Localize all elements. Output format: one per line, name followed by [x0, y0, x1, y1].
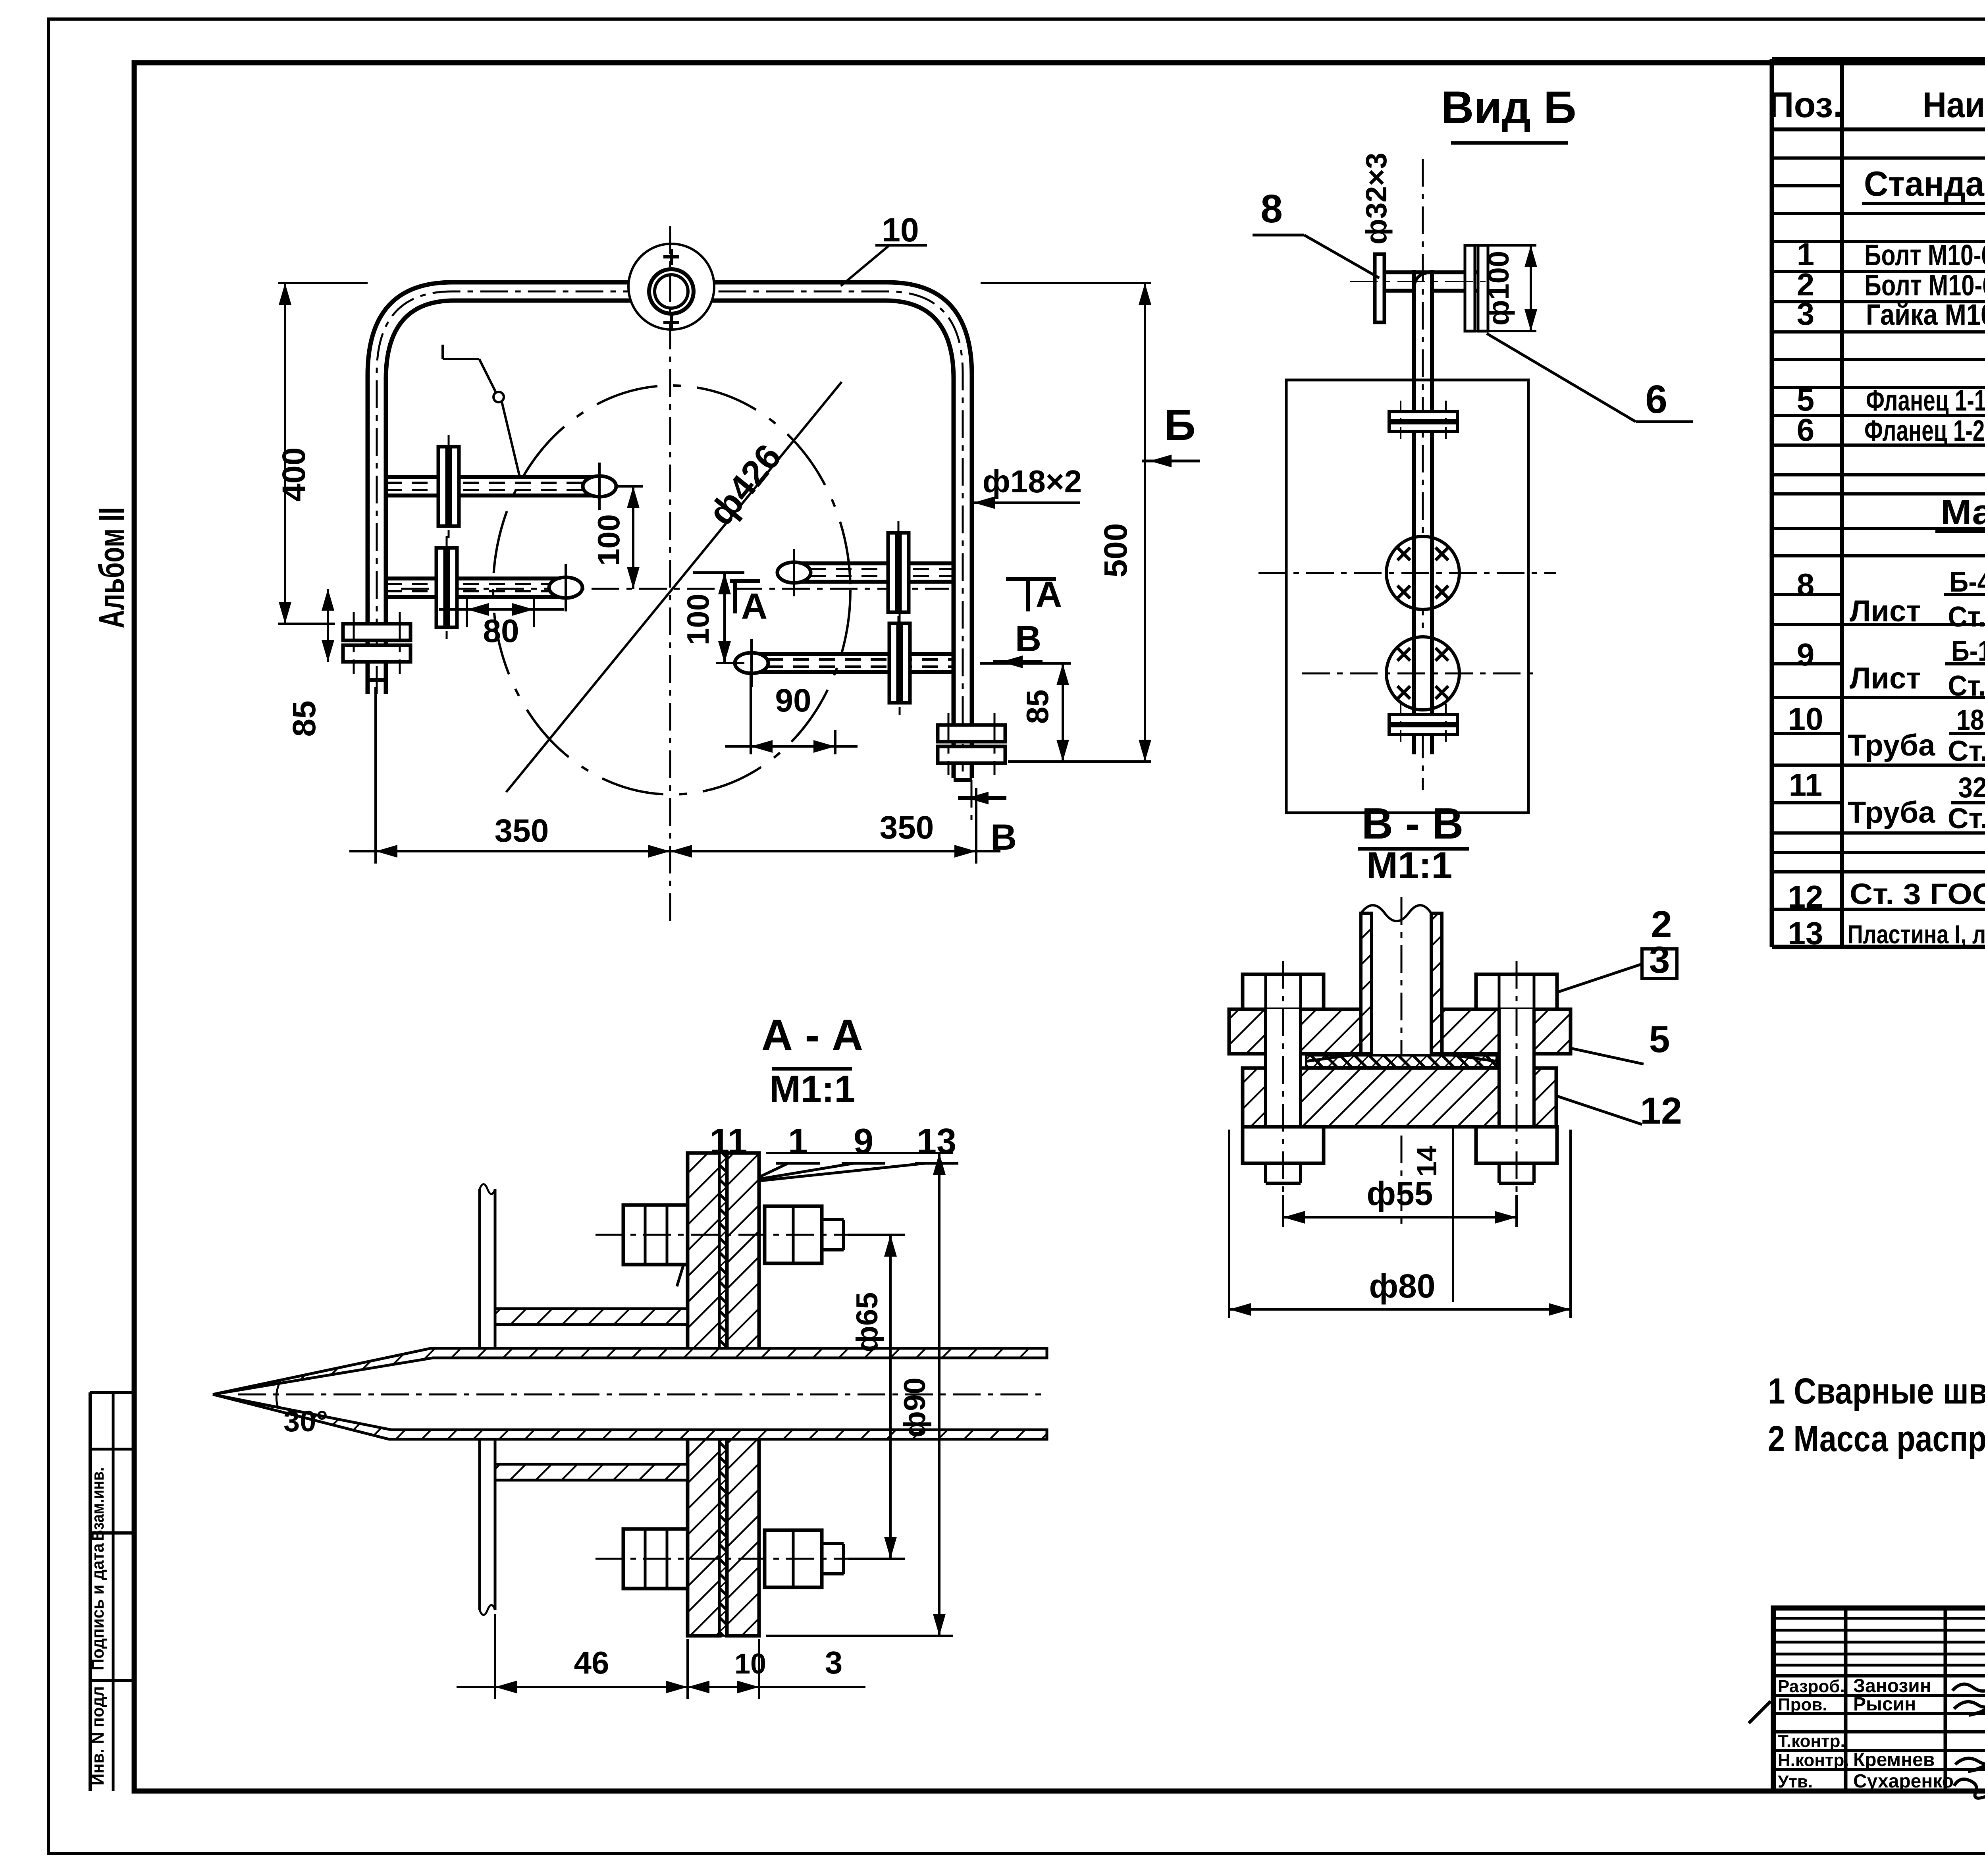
- svg-text:Н.контр.: Н.контр.: [1778, 1751, 1849, 1770]
- svg-text:ф100: ф100: [1482, 251, 1515, 326]
- svg-text:12: 12: [1788, 879, 1823, 914]
- svg-text:Фланец 1-15-6 ст 25 ГОСТ 12820: Фланец 1-15-6 ст 25 ГОСТ 12820-80: [1866, 384, 1985, 417]
- svg-text:3: 3: [1797, 296, 1815, 332]
- svg-text:Рысин: Рысин: [1853, 1694, 1916, 1715]
- svg-text:Кремнев: Кремнев: [1853, 1749, 1935, 1770]
- svg-text:13: 13: [917, 1122, 956, 1161]
- svg-text:Альбом II: Альбом II: [92, 507, 132, 629]
- svg-text:Утв.: Утв.: [1778, 1772, 1813, 1791]
- svg-text:Ст.3 ГОСТ 14637-79: Ст.3 ГОСТ 14637-79: [1948, 601, 1985, 633]
- svg-text:400: 400: [276, 447, 312, 502]
- svg-text:6: 6: [1645, 377, 1667, 422]
- svg-text:9: 9: [854, 1122, 873, 1161]
- svg-text:10: 10: [882, 211, 919, 249]
- svg-text:ф65: ф65: [850, 1292, 884, 1352]
- svg-text:Наименование: Наименование: [1923, 85, 1985, 125]
- svg-text:Поз.: Поз.: [1768, 85, 1843, 125]
- svg-text:13: 13: [1788, 916, 1823, 951]
- svg-text:Материалы: Материалы: [1941, 492, 1985, 532]
- svg-text:В - В: В - В: [1362, 799, 1464, 848]
- svg-text:ф80: ф80: [1369, 1267, 1436, 1305]
- svg-text:Пластина I, лист ТМКЩ-С-3 ГОСТ: Пластина I, лист ТМКЩ-С-3 ГОСТ 7338-77: [1848, 920, 1985, 949]
- svg-text:Ст. 3 ГОСТ 380-71: Ст. 3 ГОСТ 380-71: [1850, 877, 1985, 910]
- svg-text:Труба: Труба: [1848, 796, 1935, 829]
- svg-text:9: 9: [1797, 637, 1815, 672]
- svg-text:Ст.3 ГОСТ 10705-80: Ст.3 ГОСТ 10705-80: [1948, 803, 1985, 835]
- svg-text:10: 10: [734, 1648, 766, 1680]
- svg-text:Б-4 ГОСТ 19903-74: Б-4 ГОСТ 19903-74: [1949, 566, 1985, 598]
- svg-text:В: В: [991, 817, 1017, 858]
- svg-text:18×2 ГОСТ 10704-76: 18×2 ГОСТ 10704-76: [1956, 704, 1985, 736]
- svg-text:В: В: [1015, 619, 1041, 659]
- svg-text:Гайка М10-6Н.5 ГОСТ 5915-70: Гайка М10-6Н.5 ГОСТ 5915-70: [1866, 298, 1985, 331]
- svg-text:Вид Б: Вид Б: [1441, 82, 1576, 133]
- svg-text:Болт М10-6g ×35.58 01 ГОСТ 779: Болт М10-6g ×35.58 01 ГОСТ 7798-70: [1864, 239, 1985, 272]
- svg-text:Пров.: Пров.: [1778, 1695, 1827, 1714]
- svg-text:Стандартные изделия: Стандартные изделия: [1864, 164, 1985, 203]
- svg-text:100: 100: [591, 514, 626, 566]
- svg-text:А - А: А - А: [761, 1011, 863, 1060]
- svg-text:Ст.3 ГОСТ 14637-79: Ст.3 ГОСТ 14637-79: [1948, 670, 1985, 702]
- svg-text:350: 350: [495, 813, 549, 849]
- svg-text:46: 46: [574, 1645, 609, 1680]
- svg-text:Т.контр.: Т.контр.: [1778, 1731, 1845, 1751]
- svg-text:1: 1: [788, 1122, 808, 1161]
- svg-text:14: 14: [1411, 1146, 1442, 1177]
- svg-text:12: 12: [1640, 1090, 1682, 1132]
- svg-text:1 Сварные швы по ГОСТ 16037-8: 1 Сварные швы по ГОСТ 16037-80: [1768, 1371, 1985, 1411]
- svg-text:Б: Б: [1164, 401, 1195, 449]
- svg-text:ф18×2: ф18×2: [983, 464, 1082, 499]
- svg-text:11: 11: [1789, 767, 1823, 802]
- svg-text:100: 100: [680, 594, 715, 645]
- svg-text:Труба: Труба: [1848, 729, 1935, 762]
- svg-text:85: 85: [1020, 690, 1055, 724]
- svg-text:Инв. N подл: Инв. N подл: [88, 1686, 108, 1785]
- svg-text:5: 5: [1649, 1018, 1670, 1060]
- svg-text:3: 3: [1649, 939, 1670, 981]
- svg-text:Разроб.: Разроб.: [1778, 1677, 1845, 1696]
- svg-text:Ст.3 ГОСТ 10705-80: Ст.3 ГОСТ 10705-80: [1948, 735, 1985, 767]
- svg-text:10: 10: [1788, 701, 1823, 737]
- svg-text:30°: 30°: [283, 1405, 328, 1438]
- svg-text:ф90: ф90: [898, 1377, 932, 1437]
- svg-text:ф32×3: ф32×3: [1360, 152, 1393, 244]
- svg-text:Фланец 1-25-6 ст 25 ГОСТ 12820: Фланец 1-25-6 ст 25 ГОСТ 12820-80: [1864, 414, 1985, 447]
- svg-text:А: А: [741, 586, 767, 627]
- svg-text:90: 90: [775, 683, 811, 719]
- svg-text:8: 8: [1797, 567, 1815, 602]
- svg-text:2 Масса распределителя 7.8кг: 2 Масса распределителя 7.8кг: [1768, 1419, 1985, 1459]
- svg-text:Болт М10-6g ×45.58.01 ГОСТ 779: Болт М10-6g ×45.58.01 ГОСТ 7798-70: [1864, 269, 1985, 302]
- svg-text:3: 3: [825, 1645, 843, 1680]
- svg-text:32×3 ГОСТ 10704-76: 32×3 ГОСТ 10704-76: [1958, 772, 1985, 804]
- svg-text:Взам.инв.: Взам.инв.: [88, 1467, 108, 1541]
- svg-text:М1:1: М1:1: [1366, 844, 1452, 887]
- svg-text:500: 500: [1098, 523, 1134, 578]
- svg-text:85: 85: [286, 700, 322, 737]
- svg-text:80: 80: [483, 613, 519, 649]
- svg-text:Лист: Лист: [1850, 594, 1921, 628]
- svg-text:6: 6: [1797, 412, 1815, 447]
- svg-text:Лист: Лист: [1850, 661, 1921, 695]
- svg-text:8: 8: [1260, 187, 1283, 231]
- svg-text:Б-10 ГОСТ 19903-74: Б-10 ГОСТ 19903-74: [1951, 635, 1985, 667]
- svg-text:Подпись и дата: Подпись и дата: [88, 1543, 108, 1670]
- svg-text:ф55: ф55: [1367, 1175, 1433, 1212]
- svg-text:350: 350: [880, 810, 934, 846]
- svg-text:М1:1: М1:1: [769, 1068, 855, 1110]
- svg-text:Сухаренко: Сухаренко: [1853, 1771, 1954, 1792]
